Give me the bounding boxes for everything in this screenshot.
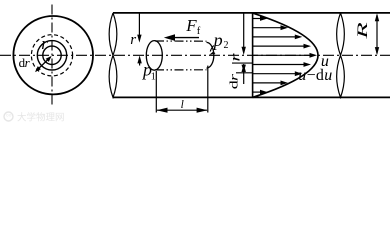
svg-text:p: p bbox=[212, 30, 223, 50]
svg-text:r: r bbox=[227, 53, 243, 61]
svg-text:1: 1 bbox=[151, 72, 156, 83]
svg-text:dr: dr bbox=[228, 74, 241, 89]
svg-text:R: R bbox=[354, 22, 370, 40]
svg-text:F: F bbox=[185, 16, 197, 35]
svg-text:u−du: u−du bbox=[298, 67, 332, 84]
svg-text:r: r bbox=[41, 34, 48, 53]
svg-text:l: l bbox=[181, 99, 184, 111]
svg-text:dr: dr bbox=[19, 55, 31, 70]
svg-text:f: f bbox=[197, 26, 201, 37]
svg-text:2: 2 bbox=[224, 40, 229, 51]
svg-text:r: r bbox=[130, 32, 136, 48]
svg-text:°°: °° bbox=[6, 113, 12, 121]
svg-text:大学物理网: 大学物理网 bbox=[17, 112, 65, 124]
